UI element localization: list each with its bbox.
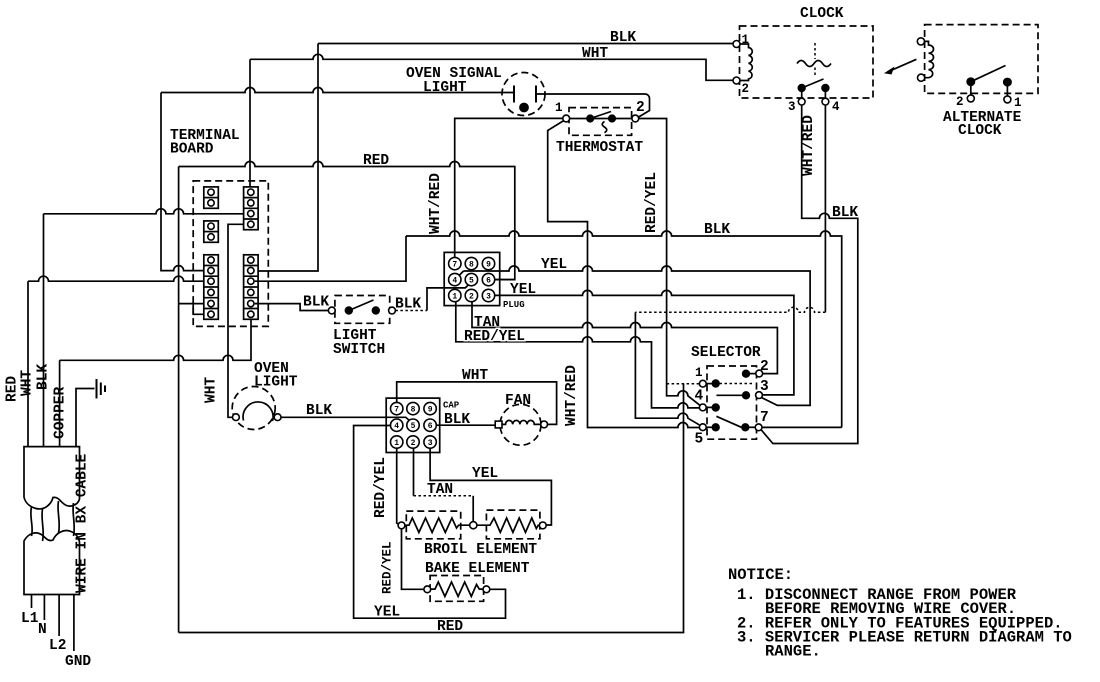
- light switch terminal left: [328, 307, 335, 314]
- wire BLK service (L2 riser to E6): [60, 318, 251, 447]
- arrow to clock: [888, 59, 916, 71]
- clock dashed box: [740, 26, 874, 98]
- clock heater dashed stub top: [814, 43, 816, 59]
- svg-text:3: 3: [788, 100, 796, 114]
- clock switch contact 3 dot: [798, 84, 805, 91]
- svg-text:GND: GND: [65, 654, 91, 670]
- wire cap pin6 to fan (BLK): [436, 424, 495, 426]
- light switch contact dots: [345, 307, 352, 314]
- broil resistor right: [477, 518, 540, 532]
- svg-text:5: 5: [411, 422, 416, 431]
- wire cap pin1 down (RED/YEL): [397, 448, 399, 524]
- oven light terminal left: [233, 414, 240, 421]
- light switch dashed box: [335, 296, 390, 324]
- thermostat wire dot-dot: [570, 118, 632, 120]
- wire RED service (L1 riser to D3): [28, 276, 208, 446]
- terminal block B: [244, 187, 259, 230]
- cap plug box: [386, 398, 440, 452]
- wire WHT service (N riser to B3): [44, 209, 248, 447]
- clock heater dashed stub bottom: [814, 68, 816, 77]
- selector stub T1-dot: [706, 383, 712, 385]
- svg-text:BLK: BLK: [610, 30, 636, 46]
- svg-text:4: 4: [832, 100, 840, 114]
- svg-text:CLOCK: CLOCK: [800, 6, 844, 22]
- svg-text:4: 4: [394, 422, 399, 431]
- svg-text:CLOCK: CLOCK: [958, 123, 1002, 139]
- selector stub dot2-T2: [750, 373, 756, 375]
- svg-text:BLK: BLK: [303, 295, 329, 311]
- svg-text:2: 2: [742, 82, 750, 96]
- selector dotted feed to T1: [667, 383, 700, 385]
- plug pin 8: [465, 257, 477, 269]
- alternate clock terminal top: [917, 38, 924, 45]
- svg-text:5: 5: [469, 277, 474, 286]
- wire pin6 elbow: [495, 279, 515, 281]
- svg-text:WHT: WHT: [582, 46, 608, 62]
- thermostat terminal 1: [563, 115, 570, 122]
- fan terminal circle: [541, 421, 548, 428]
- light switch terminal right: [389, 307, 396, 314]
- clock terminal 1: [733, 41, 740, 48]
- clock terminal 2: [733, 77, 740, 84]
- selector terminal 5: [699, 424, 706, 431]
- svg-text:WHT/RED: WHT/RED: [801, 115, 817, 176]
- cap plug pin 9: [424, 402, 436, 414]
- cap plug pin 1: [391, 436, 403, 448]
- oven signal light dashed circle: [502, 73, 545, 116]
- selector contact dot 3: [742, 392, 749, 399]
- ground symbol: [97, 379, 106, 399]
- svg-text:RED/YEL: RED/YEL: [381, 541, 395, 594]
- oven plug box: [444, 252, 500, 305]
- svg-text:BOARD: BOARD: [170, 142, 214, 158]
- BX cable lead L2: [58, 595, 60, 637]
- svg-text:1: 1: [1014, 96, 1022, 110]
- selector terminal 7: [755, 424, 762, 431]
- svg-text:RED/YEL: RED/YEL: [644, 172, 660, 233]
- svg-text:L2: L2: [49, 638, 66, 654]
- wire thermostat pin1 left to plug pin 7: [455, 118, 563, 257]
- terminal block D: [204, 255, 219, 319]
- svg-text:RED/YEL: RED/YEL: [373, 457, 389, 518]
- terminal board dashed box: [193, 181, 268, 327]
- svg-text:NOTICE:: NOTICE:: [728, 566, 793, 584]
- wire cap pin2 down to broil center (TAN): [413, 448, 415, 496]
- BX cable lower sleeve: [24, 531, 80, 595]
- svg-text:PLUG: PLUG: [503, 300, 525, 310]
- wire bake right to YEL bottom: [354, 426, 506, 619]
- BX cable middle wires: [31, 501, 75, 541]
- wire YEL (pin4 to selector T3 via diagonal): [464, 266, 811, 405]
- clock switch contact 4 dot: [822, 84, 829, 91]
- fan dashed circle: [500, 404, 541, 445]
- plug pin 1: [449, 289, 461, 301]
- svg-text:RED/YEL: RED/YEL: [464, 329, 525, 345]
- cap plug pin 4: [391, 419, 403, 431]
- svg-text:BAKE ELEMENT: BAKE ELEMENT: [425, 561, 530, 577]
- svg-text:8: 8: [411, 406, 416, 415]
- wire broil left to bake left (RED/YEL): [402, 529, 424, 590]
- svg-text:1: 1: [452, 293, 457, 302]
- svg-text:YEL: YEL: [541, 257, 567, 273]
- svg-text:LIGHT: LIGHT: [254, 375, 298, 391]
- alternate clock switch contact 2 dot: [967, 78, 975, 86]
- svg-text:RED: RED: [5, 376, 21, 402]
- svg-text:7: 7: [394, 406, 399, 415]
- plug pin 3: [482, 289, 494, 301]
- svg-text:WHT: WHT: [20, 370, 36, 396]
- broil resistor left: [405, 518, 470, 532]
- wire jumper D5-D6: [193, 304, 207, 315]
- fan winding: [502, 420, 541, 424]
- svg-text:2: 2: [411, 439, 416, 448]
- terminal block A: [204, 187, 219, 208]
- broil element dashed box left: [406, 511, 460, 539]
- bake resistor: [431, 582, 483, 596]
- selector stub dot7-T7: [749, 426, 755, 428]
- selector contact dot 4: [712, 404, 719, 411]
- thermostat sensor squiggle: [602, 122, 607, 133]
- selector contact dot 5: [712, 424, 719, 431]
- light switch blade: [349, 300, 374, 311]
- wire E5 to light switch: [255, 304, 329, 311]
- svg-text:BLK: BLK: [832, 205, 858, 221]
- svg-text:5: 5: [695, 432, 704, 448]
- svg-text:4: 4: [695, 389, 704, 405]
- oven light dashed circle: [232, 387, 275, 430]
- thermostat dashed box: [569, 108, 632, 136]
- wire YEL2 (pin3 to selector T3): [495, 290, 794, 395]
- wire thermostat pin1 to WHT/RED drop: [548, 121, 700, 428]
- svg-text:3: 3: [486, 293, 491, 302]
- wire cap pin7 to fan (WHT): [397, 382, 557, 425]
- svg-text:CAP: CAP: [443, 401, 460, 411]
- bake element dashed box: [430, 576, 484, 602]
- svg-text:SELECTOR: SELECTOR: [691, 345, 761, 361]
- svg-text:1: 1: [695, 366, 703, 380]
- selector terminal 2: [756, 370, 763, 377]
- svg-text:3: 3: [428, 439, 433, 448]
- wire RED long left vertical (RED line to bottom bus): [178, 167, 180, 633]
- svg-text:6: 6: [428, 422, 433, 431]
- plug pin 7: [449, 257, 461, 269]
- alternate clock switch contact 1 dot: [1003, 78, 1011, 86]
- clock terminal 3 stub + circle: [801, 90, 803, 98]
- wire lamp to thermostat pin 2: [536, 94, 650, 117]
- wire RED/YEL (pin1 to selector T4): [456, 302, 700, 408]
- thermostat terminal 2: [632, 115, 639, 122]
- svg-text:8: 8: [469, 261, 474, 270]
- broil terminal left: [398, 522, 405, 529]
- alternate clock terminal 1 stub + circle: [1006, 84, 1008, 96]
- selector terminal 3: [756, 392, 763, 399]
- wire clock pin4 to selector T5 diagonal: [824, 105, 826, 312]
- svg-text:2: 2: [760, 359, 769, 375]
- wire E3 to BLK bus riser: [255, 236, 406, 281]
- oven signal light plates: [514, 86, 536, 103]
- selector contact dot 2: [742, 370, 749, 377]
- selector blade 5-7: [716, 416, 741, 427]
- svg-text:WHT: WHT: [462, 368, 488, 384]
- alternate clock terminal bottom: [918, 74, 925, 81]
- wire RED line (to plug pin 6): [179, 162, 515, 280]
- svg-text:7: 7: [452, 261, 457, 270]
- selector dashed box: [707, 366, 757, 439]
- cap plug pin 6: [424, 419, 436, 431]
- broil center junction: [470, 522, 477, 529]
- svg-text:2: 2: [636, 100, 645, 116]
- broil element dashed box right: [486, 510, 540, 539]
- BX cable lead L1: [31, 595, 33, 609]
- wire clock pin3 to selector T7 diagonal: [761, 105, 858, 444]
- svg-text:LIGHT: LIGHT: [423, 80, 467, 96]
- selector terminal 1: [699, 380, 706, 387]
- clock heater squiggle: [797, 61, 831, 67]
- clock coil: [740, 44, 752, 81]
- wire TAN (pin2 to selector T2): [472, 302, 777, 374]
- svg-text:RED: RED: [437, 619, 463, 635]
- wire light switch to plug pin 5: [395, 310, 427, 312]
- wire branch to D5: [179, 303, 208, 305]
- svg-text:WHT/RED: WHT/RED: [564, 365, 580, 426]
- selector stub T5-dot: [706, 426, 712, 428]
- cap plug pin 3: [424, 436, 436, 448]
- wire thermostat pin2 to selector T4 (RED/YEL): [639, 119, 700, 406]
- BX cable lead GND: [73, 595, 75, 652]
- oven signal light dot: [520, 103, 529, 112]
- plug pin 6: [482, 273, 494, 285]
- thermostat blade: [590, 112, 611, 119]
- terminal block E: [244, 255, 259, 319]
- alternate clock dashed box: [925, 25, 1038, 94]
- selector terminal 4: [699, 404, 706, 411]
- svg-text:YEL: YEL: [510, 282, 536, 298]
- oven light loop: [243, 402, 273, 421]
- wire B4 WHT to oven light: [228, 224, 248, 417]
- plug pin 2: [465, 289, 477, 301]
- cap plug pin 5: [407, 419, 419, 431]
- svg-text:YEL: YEL: [374, 605, 400, 621]
- selector contact dot 7: [742, 424, 749, 431]
- bake terminal left: [424, 586, 431, 593]
- thermostat contact dots: [587, 115, 594, 122]
- wire RED bottom bus: [179, 384, 684, 633]
- alternate clock coil: [925, 41, 934, 77]
- svg-text:2: 2: [956, 95, 964, 109]
- svg-text:COPPER: COPPER: [53, 386, 69, 439]
- svg-text:6: 6: [486, 277, 491, 286]
- fan terminal square: [495, 421, 502, 428]
- svg-text:WHT: WHT: [204, 377, 220, 403]
- svg-text:1: 1: [555, 101, 563, 115]
- svg-text:TAN: TAN: [427, 482, 453, 498]
- wire COPPER ground riser: [76, 389, 95, 447]
- wire cap pin3 down to broil right (YEL): [430, 448, 551, 525]
- svg-text:THERMOSTAT: THERMOSTAT: [556, 140, 643, 156]
- cap plug pin 8: [407, 402, 419, 414]
- cap plug pin 2: [407, 436, 419, 448]
- selector contact dot 1: [712, 380, 719, 387]
- wire pin4 to YEL line: [459, 271, 463, 276]
- bake terminal right: [483, 586, 490, 593]
- svg-text:YEL: YEL: [472, 466, 498, 482]
- svg-text:9: 9: [486, 261, 491, 270]
- wire WHT top (B1 to clock pin 2): [250, 54, 733, 80]
- plug pin 4: [449, 273, 461, 285]
- alternate clock terminal 2 stub + circle: [970, 84, 972, 95]
- svg-text:7: 7: [760, 410, 769, 426]
- svg-text:SWITCH: SWITCH: [333, 342, 385, 358]
- wire BLK top (E2 to clock pin 1): [318, 43, 733, 45]
- svg-text:N: N: [38, 622, 47, 638]
- svg-text:FAN: FAN: [505, 393, 531, 409]
- wire BLK top vertical + to terminal E2: [255, 44, 318, 272]
- wire WHT vertical to terminal B1: [249, 59, 251, 189]
- alternate clock switch blade: [971, 66, 1006, 82]
- terminal block C: [204, 221, 219, 242]
- plug pin 5: [465, 273, 477, 285]
- svg-text:RED: RED: [363, 153, 389, 169]
- svg-text:WIRE IN BX CABLE: WIRE IN BX CABLE: [75, 453, 91, 593]
- wire oven light to cap plug pin 5 (BLK): [281, 417, 411, 421]
- selector stub T4-dot: [706, 406, 712, 408]
- svg-text:2: 2: [469, 293, 474, 302]
- oven light terminal right: [274, 414, 281, 421]
- svg-text:BLK: BLK: [36, 364, 52, 390]
- svg-text:BLK: BLK: [704, 222, 730, 238]
- BX cable lead N: [43, 595, 45, 621]
- svg-text:BLK: BLK: [306, 403, 332, 419]
- wire RED/YEL riser hop segment note: selector T7 line: [762, 426, 842, 428]
- svg-text:3: 3: [760, 379, 769, 395]
- wire oven signal light feed (D2 to lamp): [161, 88, 514, 93]
- svg-text:BROIL ELEMENT: BROIL ELEMENT: [424, 542, 537, 558]
- wire D2 vertical: [161, 93, 208, 271]
- broil terminal right: [539, 522, 546, 529]
- plug pin 9: [482, 257, 494, 269]
- wire BLK bus: [406, 231, 842, 427]
- clock switch blade: [802, 79, 824, 88]
- selector pole line 3: [716, 394, 742, 396]
- svg-text:9: 9: [428, 406, 433, 415]
- svg-text:BLK: BLK: [444, 412, 470, 428]
- svg-text:4: 4: [452, 277, 457, 286]
- selector dotted pole line 1: [720, 383, 755, 385]
- cap plug pin 7: [391, 402, 403, 414]
- svg-text:L1: L1: [21, 611, 39, 627]
- BX cable upper sleeve: [24, 447, 80, 509]
- clock terminal 4 stub + circle: [824, 90, 826, 98]
- svg-text:1: 1: [394, 439, 399, 448]
- svg-text:RANGE.: RANGE.: [765, 643, 821, 661]
- svg-text:WHT/RED: WHT/RED: [428, 173, 444, 234]
